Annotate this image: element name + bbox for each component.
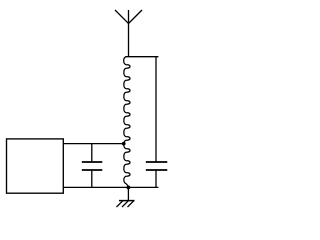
capacitor C2 bbox=[146, 57, 168, 188]
antenna bbox=[115, 10, 142, 57]
junction bottom dot bbox=[126, 186, 130, 190]
wire tap horizontal bbox=[63, 143, 124, 145]
box (receiver block) bbox=[7, 139, 64, 193]
inductor L1 bbox=[124, 57, 130, 187]
wire bottom horizontal bbox=[63, 186, 158, 188]
capacitor C1 bbox=[82, 144, 103, 188]
junction tap dot bbox=[122, 142, 126, 146]
wire top horizontal bbox=[125, 56, 158, 58]
wire ground stub bbox=[127, 187, 129, 200]
ground bbox=[117, 201, 135, 207]
